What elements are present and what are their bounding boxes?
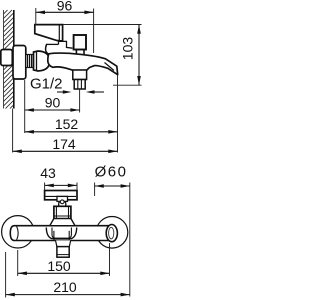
body end ellipse (spout end)	[106, 225, 117, 242]
svg-text:103: 103	[120, 37, 136, 61]
svg-text:Ø60: Ø60	[95, 164, 128, 181]
dim 174	[13, 109, 118, 154]
threaded nipple	[26, 55, 34, 68]
dim 43	[40, 165, 77, 191]
dim 152	[25, 76, 118, 153]
G1/2 label with pointer arrows	[30, 76, 104, 94]
spout neck	[56, 240, 71, 246]
shower hose connector under body	[73, 70, 87, 80]
svg-text:G1/2: G1/2	[30, 76, 63, 93]
svg-text:152: 152	[55, 116, 79, 132]
dim 96 (top)	[36, 0, 94, 53]
svg-text:90: 90	[45, 94, 61, 110]
supply elbow in wall	[1, 50, 13, 66]
svg-text:150: 150	[47, 258, 71, 274]
technical dimension drawing: wall-mounted bath mixer, two views	[0, 0, 143, 300]
handle (front)	[45, 191, 77, 200]
mixer body (side)	[48, 53, 118, 75]
aerator	[57, 247, 69, 258]
cartridge block	[54, 206, 71, 220]
wall face	[13, 10, 15, 109]
body left cap inner arc	[17, 226, 19, 240]
cartridge cap / neck	[46, 44, 49, 54]
wall flange of S-union	[13, 46, 26, 80]
escutcheon circle right	[96, 217, 128, 249]
small knob with dome	[59, 202, 66, 207]
knob legs	[75, 50, 77, 54]
flaring base to body	[50, 219, 75, 226]
svg-text:174: 174	[52, 136, 76, 152]
escutcheon circle left	[2, 216, 34, 248]
svg-text:43: 43	[40, 165, 56, 181]
wall hatching	[4, 10, 15, 109]
handle lever (side)	[35, 25, 63, 41]
spout inner lip line	[105, 63, 115, 71]
dim 150	[18, 243, 110, 276]
diverter knob on spout	[74, 35, 86, 50]
dim 210	[6, 252, 130, 298]
union nut	[34, 51, 50, 71]
handle tab	[57, 196, 68, 201]
dim 90	[25, 80, 80, 133]
svg-text:210: 210	[53, 279, 77, 295]
dim Ø60	[95, 164, 130, 297]
svg-text:96: 96	[57, 0, 73, 14]
wall edges	[3, 10, 5, 109]
body tube	[10, 226, 109, 241]
dim 103 (right, vertical)	[63, 25, 142, 86]
spout front: base plate	[46, 228, 76, 239]
